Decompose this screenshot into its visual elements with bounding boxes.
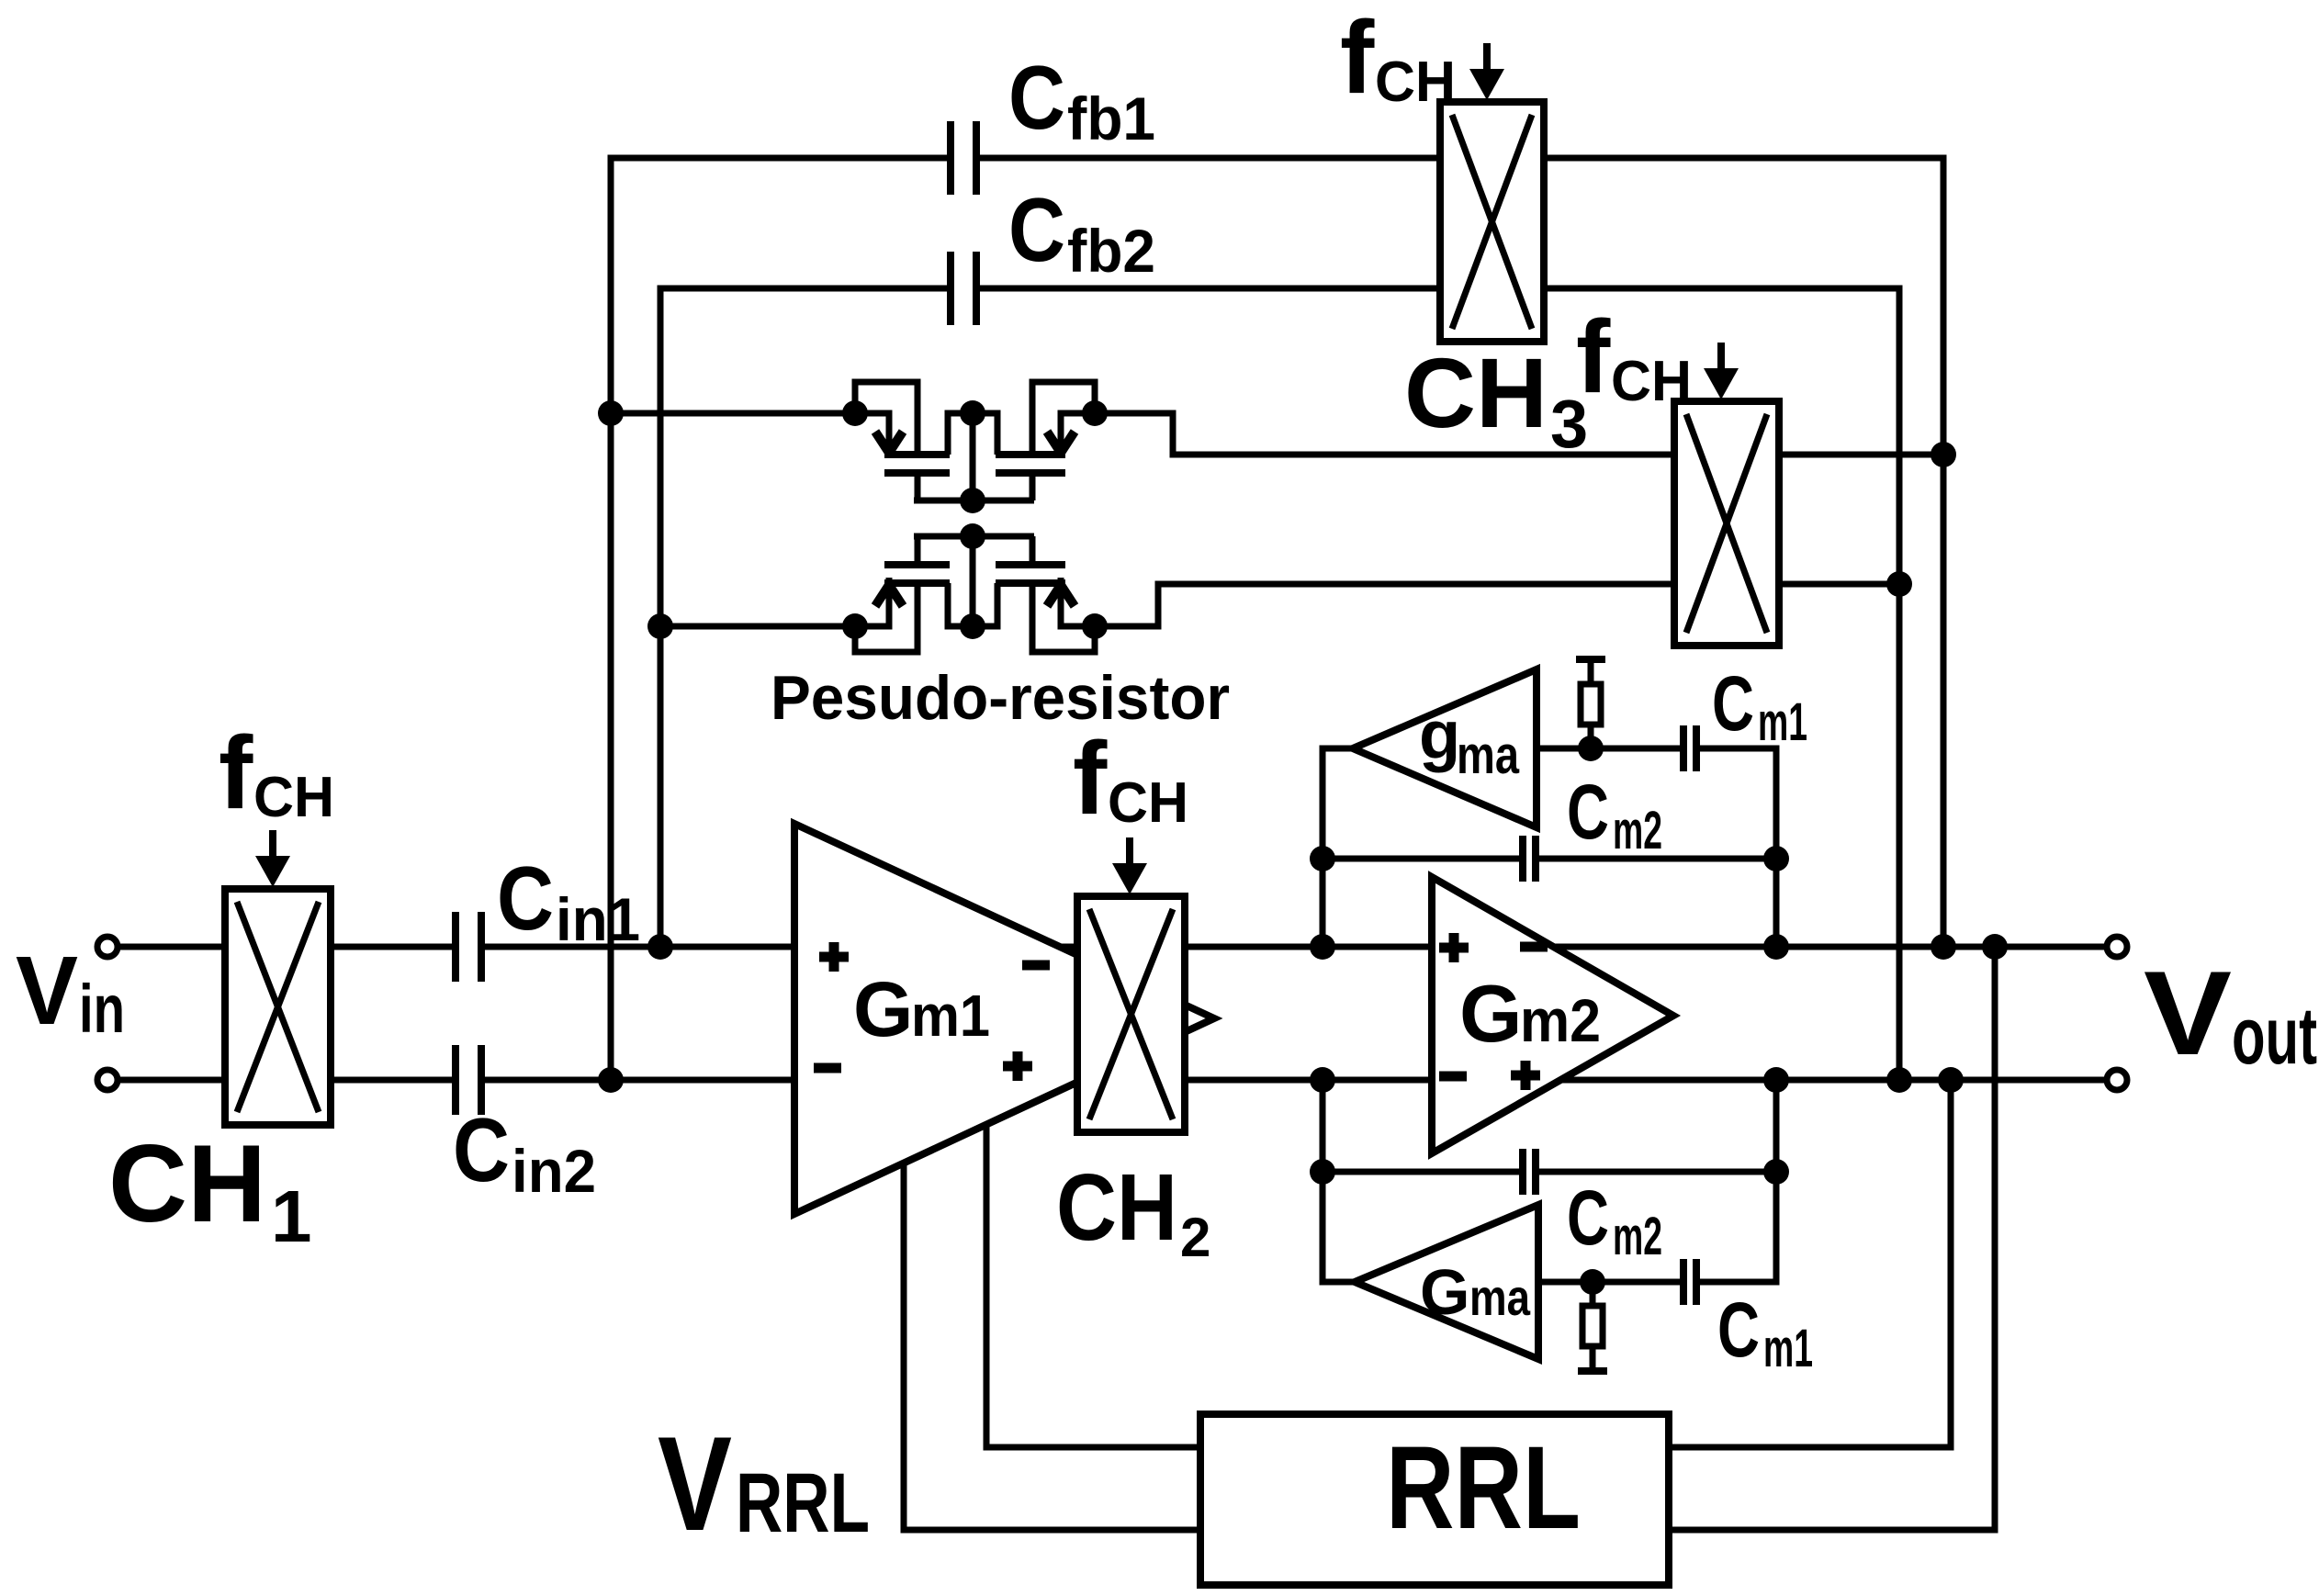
svg-text:CH: CH xyxy=(1404,337,1548,448)
svg-text:1: 1 xyxy=(271,1175,312,1257)
svg-text:C: C xyxy=(453,1099,510,1200)
svg-text:C: C xyxy=(1567,769,1609,855)
svg-text:RRL: RRL xyxy=(736,1456,870,1550)
svg-text:C: C xyxy=(497,848,554,949)
svg-text:RRL: RRL xyxy=(1386,1422,1581,1554)
svg-text:m1: m1 xyxy=(1763,1319,1813,1378)
svg-text:fb2: fb2 xyxy=(1067,217,1155,285)
svg-text:2: 2 xyxy=(1180,1207,1210,1268)
svg-text:V: V xyxy=(16,937,78,1045)
svg-text:C: C xyxy=(1008,179,1065,280)
svg-text:C: C xyxy=(1717,1287,1760,1373)
svg-text:ma: ma xyxy=(1469,1268,1531,1326)
svg-text:G: G xyxy=(853,966,913,1052)
svg-text:CH: CH xyxy=(108,1122,266,1245)
svg-text:f: f xyxy=(1340,0,1375,115)
svg-text:m1: m1 xyxy=(1758,692,1807,752)
svg-text:C: C xyxy=(1567,1175,1609,1261)
svg-text:in2: in2 xyxy=(512,1137,596,1205)
svg-text:fb1: fb1 xyxy=(1067,84,1155,152)
svg-text:ma: ma xyxy=(1457,725,1520,785)
svg-text:f: f xyxy=(219,715,253,830)
svg-text:C: C xyxy=(1008,47,1065,148)
svg-text:in1: in1 xyxy=(556,885,640,953)
svg-text:f: f xyxy=(1576,299,1611,414)
svg-text:G: G xyxy=(1420,1256,1469,1328)
svg-text:g: g xyxy=(1419,697,1460,773)
svg-text:m1: m1 xyxy=(911,983,990,1049)
svg-text:Pesudo-resistor: Pesudo-resistor xyxy=(771,663,1230,733)
svg-text:m2: m2 xyxy=(1613,801,1662,860)
svg-text:f: f xyxy=(1073,721,1108,836)
svg-text:G: G xyxy=(1459,968,1522,1059)
svg-text:V: V xyxy=(658,1409,732,1558)
svg-text:out: out xyxy=(2232,990,2317,1081)
svg-text:V: V xyxy=(2144,946,2232,1080)
svg-text:CH: CH xyxy=(1108,771,1188,835)
svg-text:in: in xyxy=(79,971,125,1047)
svg-text:CH: CH xyxy=(253,766,334,829)
svg-text:m2: m2 xyxy=(1613,1207,1662,1266)
svg-text:CH: CH xyxy=(1056,1154,1177,1260)
svg-text:CH: CH xyxy=(1375,51,1456,114)
svg-text:m2: m2 xyxy=(1520,986,1601,1054)
svg-text:C: C xyxy=(1712,660,1754,747)
svg-text:CH: CH xyxy=(1611,350,1692,413)
